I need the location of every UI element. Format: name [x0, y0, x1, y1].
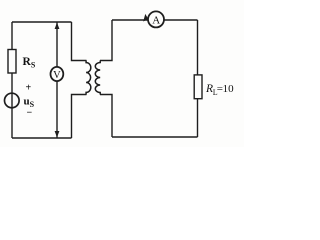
ammeter current arrowhead: [143, 14, 148, 22]
resistor RS: [8, 50, 16, 74]
svg-text:10: 10: [223, 83, 235, 95]
voltmeter V: [51, 67, 64, 81]
svg-text:A: A: [152, 14, 160, 26]
wire right loop outline: [100, 20, 198, 137]
resistor RL: [194, 75, 202, 99]
transformer secondary winding L2: [95, 61, 100, 95]
svg-text:−: −: [27, 108, 33, 119]
ammeter A: [148, 11, 164, 27]
voltmeter branch bottom arrowhead: [55, 131, 60, 138]
transformer primary winding L1: [86, 61, 91, 95]
svg-text:V: V: [53, 70, 61, 81]
source uS plus sign: [26, 83, 32, 94]
svg-text:+: +: [26, 83, 32, 94]
voltage source uS: [5, 93, 20, 108]
label RL=10: [205, 83, 234, 97]
voltmeter branch top arrowhead: [55, 23, 60, 30]
label uS: [24, 96, 35, 110]
wire voltmeter branch: [56, 22, 58, 138]
label RS: [23, 56, 36, 70]
source uS minus sign: [27, 108, 33, 119]
wire left loop outline: [12, 22, 87, 138]
